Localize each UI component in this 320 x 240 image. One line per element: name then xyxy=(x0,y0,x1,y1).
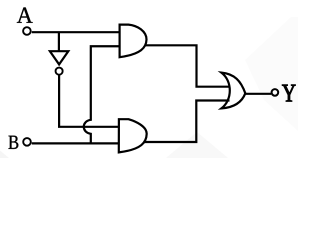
wire inverter output down and right to bottom AND input 1 xyxy=(59,75,121,127)
watermark triangle bottom-center xyxy=(166,132,228,158)
wire OR output xyxy=(245,93,271,95)
wire top AND output xyxy=(145,45,230,86)
wire bottom AND output xyxy=(144,101,230,143)
wire B branch vertical with hop to top AND input 2 xyxy=(84,46,121,143)
inverter triangle xyxy=(50,51,68,64)
wire A horizontal to top AND gate xyxy=(32,31,121,33)
label B xyxy=(9,136,19,149)
inverter bubble xyxy=(56,68,63,75)
watermark block right xyxy=(245,17,298,131)
wire B horizontal to bottom AND input 2 xyxy=(32,142,121,144)
label A xyxy=(17,8,33,23)
node Y output terminal xyxy=(272,89,279,96)
AND gate top xyxy=(120,25,147,58)
watermark sliver bottom-left xyxy=(0,151,9,159)
wire A drop to inverter input xyxy=(58,32,60,51)
label Y xyxy=(282,85,295,102)
node B input terminal xyxy=(23,138,31,146)
OR gate xyxy=(221,73,245,109)
AND gate bottom xyxy=(119,119,147,152)
node A input terminal xyxy=(23,27,31,35)
